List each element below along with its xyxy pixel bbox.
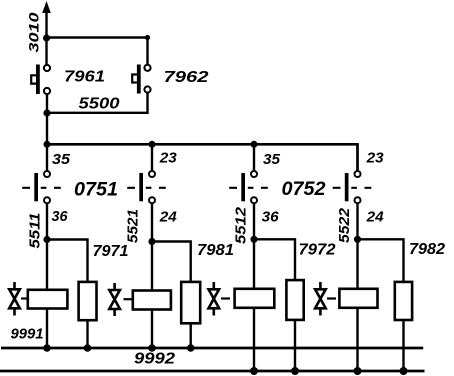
pushbutton 7961 actuator hook [31, 75, 36, 83]
wire resistor 7982 to bus 9992 [402, 320, 404, 371]
svg-text:9991: 9991 [11, 326, 44, 343]
svg-text:7971: 7971 [93, 243, 129, 260]
node branch 4 bus corner [356, 144, 357, 171]
wire branch 2 stub [151, 144, 153, 171]
wire tap to resistor 7972 [254, 239, 295, 280]
resistor 7972 [286, 280, 303, 320]
pushbutton 7962 actuator hook [132, 75, 137, 83]
relay coil 4 (0752) [339, 289, 377, 308]
contact 0751 23-24 terminal 23 [149, 171, 155, 177]
resistor 7981 [181, 282, 200, 323]
pushbutton 7962 terminal bottom [144, 86, 150, 92]
contact 0752 23-24 terminal 23 [355, 171, 361, 177]
node branch 1 on bus [44, 141, 51, 148]
contact 0751 35-36 linkage dashes [22, 187, 61, 189]
contact 0751 35-36 bar [34, 173, 38, 201]
bus 9992 [0, 370, 425, 373]
valve symbol 2 [109, 283, 120, 316]
node: junction of feed and button loop top [43, 34, 50, 41]
wire top distribution bus [47, 143, 358, 146]
wire resistor 7972 to bus 9992 [294, 320, 296, 371]
contact 0752 35-36 terminal 35 [251, 171, 257, 177]
wire tap to resistor 7982 [358, 239, 404, 282]
pushbutton 7961 terminal top [44, 65, 50, 71]
node resistor 7971 on 9991 [84, 344, 92, 352]
contact 0752 35-36 terminal 36 [251, 197, 257, 203]
svg-text:35: 35 [263, 151, 281, 168]
relay coil 1 (0751) [28, 290, 68, 309]
node coil2 on 9991 [148, 344, 156, 352]
svg-text:7972: 7972 [299, 242, 336, 259]
svg-text:5512: 5512 [233, 206, 250, 244]
resistor 7971 [79, 282, 97, 320]
svg-text:7981: 7981 [197, 242, 234, 259]
wire tap to resistor 7981 [152, 242, 191, 283]
svg-text:0751: 0751 [74, 180, 118, 201]
dashed link valve 2 to coil 2 [124, 298, 132, 300]
svg-text:35: 35 [52, 151, 71, 168]
pushbutton 7962 terminal top [144, 65, 150, 71]
node coil1 on 9991 [43, 344, 51, 352]
node coil4 on 9992 [354, 367, 362, 375]
bus 9991 [1, 347, 423, 350]
contact 0751 23-24 terminal 24 [149, 197, 155, 203]
wire coil 2 to bus 9991 [151, 310, 153, 349]
wire coil 4 to bus 9992 [356, 308, 358, 371]
contact 0751 35-36 terminal 36 [44, 197, 50, 203]
pushbutton 7961 contact bar [36, 65, 40, 95]
node: loop top right corner [145, 35, 150, 40]
svg-text:24: 24 [366, 209, 385, 226]
contact 0752 35-36 linkage dashes [229, 187, 268, 189]
wire tap to resistor 7971 [47, 240, 88, 283]
node branch 2 on bus [149, 141, 156, 148]
svg-text:5522: 5522 [336, 207, 353, 243]
svg-text:5521: 5521 [125, 209, 142, 243]
svg-text:36: 36 [262, 209, 280, 226]
svg-text:5511: 5511 [27, 213, 44, 249]
wire 7961 bottom to bus [46, 94, 48, 145]
node tap 4 [354, 236, 361, 243]
wire branch 3 stub [253, 144, 255, 171]
wire resistor 7981 to bus 9991 [189, 323, 191, 348]
svg-text:7962: 7962 [164, 69, 209, 86]
svg-text:0752: 0752 [282, 179, 326, 200]
wire 3010 feed vertical with arrow [45, 8, 47, 65]
pushbutton 7962 contact bar [137, 65, 141, 94]
valve symbol 1 [9, 282, 20, 316]
node tap 2 [148, 238, 155, 245]
svg-text:23: 23 [159, 150, 178, 167]
wire branch 4 below contact [356, 203, 358, 289]
svg-text:7961: 7961 [64, 69, 105, 86]
contact 0751 23-24 linkage dashes [127, 187, 166, 189]
resistor 7982 [395, 282, 412, 320]
dashed link valve 1 to coil 1 [21, 297, 27, 299]
wire coil 3 to bus 9992 [253, 308, 255, 371]
wire coil 1 to bus 9991 [46, 309, 48, 349]
node resistor 7981 on 9991 [187, 344, 195, 352]
contact 0752 23-24 terminal 24 [355, 197, 361, 203]
wire branch 2 below contact [151, 203, 153, 290]
contact 0752 35-36 bar [241, 173, 245, 201]
node tap 1 [43, 236, 50, 243]
wire resistor 7971 to bus 9991 [86, 320, 88, 348]
arrow head on 3010 feed [42, 1, 51, 13]
svg-text:5500: 5500 [79, 96, 120, 113]
contact 0751 23-24 bar [139, 173, 143, 201]
svg-text:24: 24 [159, 209, 178, 226]
svg-text:23: 23 [366, 150, 385, 167]
contact 0752 23-24 bar [345, 173, 349, 201]
svg-text:7982: 7982 [409, 241, 445, 258]
dashed link valve 4 to coil 4 [327, 297, 336, 299]
svg-text:3010: 3010 [26, 12, 42, 52]
wire branch 3 below contact [253, 203, 255, 289]
svg-text:36: 36 [52, 208, 69, 225]
pushbutton 7961 terminal bottom [44, 88, 50, 94]
wire button loop bottom [47, 93, 148, 113]
svg-text:9992: 9992 [134, 351, 175, 368]
relay coil 2 (0751) [133, 291, 171, 310]
node resistor 7982 on 9992 [400, 367, 408, 375]
valve symbol 4 [315, 282, 326, 316]
node: loop bottom junction [43, 109, 50, 116]
wire branch 1 stub [46, 144, 48, 171]
node coil3 on 9992 [250, 367, 258, 375]
contact 0751 35-36 terminal 35 [44, 171, 50, 177]
node branch 3 on bus [251, 141, 258, 148]
wire button loop top [47, 38, 148, 65]
valve symbol 3 [209, 282, 220, 316]
wire branch 1 below contact [46, 203, 48, 290]
node tap 3 [250, 236, 257, 243]
contact 0752 23-24 linkage dashes [333, 187, 372, 189]
relay coil 3 (0752) [235, 289, 275, 308]
node resistor 7972 on 9992 [291, 367, 299, 375]
dashed link valve 3 to coil 3 [221, 297, 230, 299]
